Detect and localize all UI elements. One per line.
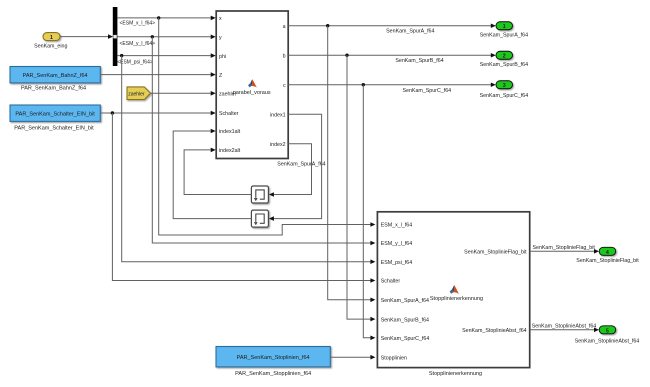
svg-text:Stopplinien: Stopplinien bbox=[381, 355, 407, 361]
svg-text:Schalter: Schalter bbox=[381, 279, 401, 285]
svg-text:PAR_SenKam_BahnZ_f64: PAR_SenKam_BahnZ_f64 bbox=[21, 85, 86, 91]
constant PAR_SenKam_Stoplinien_f64 bbox=[216, 347, 330, 367]
memory M1 bbox=[251, 186, 268, 203]
node b branch bbox=[345, 54, 348, 57]
svg-text:1: 1 bbox=[503, 24, 506, 30]
svg-text:SenKam_SpurA_f64: SenKam_SpurA_f64 bbox=[386, 29, 434, 35]
constant PAR_SenKam_Schalter_EIN_bit bbox=[10, 105, 100, 121]
svg-text:SenKam_SpurC_f64: SenKam_SpurC_f64 bbox=[403, 88, 452, 94]
wire SenKam_StoplinieFlag_bit to outport 4 bbox=[530, 250, 595, 252]
wire b to outport 2 bbox=[288, 54, 491, 56]
svg-text:<ESM_x_l_f64>: <ESM_x_l_f64> bbox=[120, 20, 156, 26]
inport 1 SenKam_eing bbox=[43, 33, 60, 41]
svg-text:Stopplinienerkennung: Stopplinienerkennung bbox=[430, 296, 483, 302]
svg-text:b: b bbox=[283, 54, 286, 60]
svg-text:a: a bbox=[283, 24, 286, 30]
svg-text:ESM_psi_f64: ESM_psi_f64 bbox=[381, 260, 413, 266]
svg-text:SenKam_eing: SenKam_eing bbox=[34, 43, 67, 49]
svg-text:PAR_SenKam_Schalter_EIN_bit: PAR_SenKam_Schalter_EIN_bit bbox=[15, 112, 95, 118]
svg-text:index1: index1 bbox=[270, 113, 286, 119]
wire Schalter branch down to Stopplinienerkennung bbox=[112, 113, 370, 281]
svg-text:SenKam_StoplinieAbst_f64: SenKam_StoplinieAbst_f64 bbox=[462, 328, 527, 334]
node ESM_psi branch bbox=[120, 54, 123, 57]
wire ESM_x to parabel bbox=[117, 17, 210, 19]
wire Schalter to parabel bbox=[101, 112, 211, 114]
svg-text:SenKam_StoplinieAbst_f64: SenKam_StoplinieAbst_f64 bbox=[532, 324, 597, 330]
svg-text:<ESM_psi_f64>: <ESM_psi_f64> bbox=[117, 59, 153, 65]
svg-text:4: 4 bbox=[606, 250, 609, 256]
svg-text:3: 3 bbox=[503, 83, 506, 89]
svg-text:SenKam_SpurC_f64: SenKam_SpurC_f64 bbox=[480, 93, 529, 99]
svg-text:y: y bbox=[219, 35, 222, 41]
wire a branch down to SpurA input bbox=[328, 26, 371, 300]
wire ESM_y to parabel bbox=[117, 36, 210, 38]
outport 1 SenKam_SpurA_f64 bbox=[496, 22, 513, 30]
wire memory M1 to index2alt bbox=[184, 150, 251, 195]
wire BahnZ to Z bbox=[101, 74, 211, 76]
node ESM_x branch bbox=[157, 16, 160, 19]
svg-text:SenKam_SpurC_f64: SenKam_SpurC_f64 bbox=[381, 336, 430, 342]
wire ESM_x branch to Stopplinienerkennung bbox=[159, 18, 371, 235]
demux input square bbox=[113, 35, 117, 39]
svg-text:index2alt: index2alt bbox=[219, 148, 241, 154]
svg-text:SenKam_SpurB_f64: SenKam_SpurB_f64 bbox=[395, 58, 443, 64]
svg-text:PAR_SenKam_Stopplinien_f64: PAR_SenKam_Stopplinien_f64 bbox=[235, 371, 311, 377]
svg-text:5: 5 bbox=[606, 328, 609, 334]
outport 5 SenKam_StoplinieAbst_f64 bbox=[599, 326, 616, 334]
wire inport to demux bbox=[60, 36, 108, 38]
svg-text:parabel_voraus: parabel_voraus bbox=[233, 90, 271, 96]
MATLAB function block Stopplinienerkennung bbox=[377, 212, 529, 368]
svg-text:SenKam_StoplinieFlag_bit: SenKam_StoplinieFlag_bit bbox=[576, 258, 639, 264]
svg-text:PAR_SenKam_BahnZ_f64: PAR_SenKam_BahnZ_f64 bbox=[23, 73, 88, 79]
svg-text:2: 2 bbox=[503, 54, 506, 60]
wire c to outport 3 bbox=[288, 84, 491, 86]
svg-text:ESM_x_l_f64: ESM_x_l_f64 bbox=[381, 223, 413, 229]
svg-text:SenKam_SpurA_f64: SenKam_SpurA_f64 bbox=[381, 298, 429, 304]
svg-text:SenKam_StoplinieAbst_f64: SenKam_StoplinieAbst_f64 bbox=[575, 338, 640, 344]
wire Stoplinien to Stopplinienerkennung bbox=[331, 356, 371, 358]
wire ESM_y branch to Stopplinienerkennung bbox=[152, 37, 370, 243]
svg-text:PAR_SenKam_Stoplinien_f64: PAR_SenKam_Stoplinien_f64 bbox=[237, 355, 310, 361]
wire ESM_psi branch to Stopplinienerkennung bbox=[122, 56, 371, 262]
svg-text:Stopplinienerkennung: Stopplinienerkennung bbox=[429, 371, 482, 377]
wire ESM_psi to parabel bbox=[117, 55, 210, 57]
node a branch bbox=[326, 24, 329, 27]
svg-text:SenKam_StoplinieFlag_bit: SenKam_StoplinieFlag_bit bbox=[464, 250, 527, 256]
wire c branch down to SpurC input bbox=[363, 85, 370, 338]
matlab logo U1 bbox=[248, 79, 257, 87]
demux bar bbox=[113, 7, 118, 66]
svg-text:PAR_SenKam_Schalter_EIN_bit: PAR_SenKam_Schalter_EIN_bit bbox=[14, 126, 94, 132]
wire zaehler to parabel bbox=[151, 92, 211, 94]
wire index1 to memory M2 bbox=[274, 114, 322, 218]
svg-text:c: c bbox=[283, 83, 286, 89]
svg-text:index1alt: index1alt bbox=[219, 129, 241, 135]
node c branch bbox=[362, 83, 365, 86]
svg-text:x: x bbox=[219, 16, 222, 22]
constant PAR_SenKam_BahnZ_f64 bbox=[10, 67, 100, 83]
svg-text:index2: index2 bbox=[270, 142, 286, 148]
svg-text:<ESM_y_l_f64>: <ESM_y_l_f64> bbox=[120, 41, 156, 47]
wire index2 to memory M1 bbox=[274, 144, 312, 195]
node ESM_y branch bbox=[151, 35, 154, 38]
outport 3 SenKam_SpurC_f64 bbox=[496, 81, 513, 89]
outport 4 SenKam_StoplinieFlag_bit bbox=[599, 247, 616, 255]
svg-text:Schalter: Schalter bbox=[219, 111, 239, 117]
from tag zaehler bbox=[127, 87, 151, 100]
wire a to outport 1 bbox=[288, 25, 491, 27]
wire memory M2 to index1alt bbox=[173, 131, 251, 219]
svg-text:ESM_y_l_f64: ESM_y_l_f64 bbox=[381, 241, 413, 247]
svg-text:SenKam_SpurB_f64: SenKam_SpurB_f64 bbox=[480, 62, 528, 68]
svg-text:zaehler: zaehler bbox=[128, 91, 145, 97]
wire b branch down to SpurB input bbox=[347, 55, 371, 319]
svg-text:1: 1 bbox=[50, 35, 53, 41]
memory M2 bbox=[251, 210, 268, 227]
svg-text:phi: phi bbox=[219, 54, 226, 60]
wire SenKam_StoplinieAbst_f64 to outport 5 bbox=[530, 329, 595, 331]
svg-text:SenKam_SpurB_f64: SenKam_SpurB_f64 bbox=[381, 317, 429, 323]
svg-text:SenKam_StoplinieFlag_bit: SenKam_StoplinieFlag_bit bbox=[532, 245, 595, 251]
outport 2 SenKam_SpurB_f64 bbox=[496, 51, 513, 59]
matlab logo U2 bbox=[450, 285, 459, 294]
svg-text:SenKam_SpurA_f64: SenKam_SpurA_f64 bbox=[277, 162, 325, 168]
node Schalter branch bbox=[111, 111, 114, 114]
MATLAB function block parabel_voraus bbox=[216, 11, 288, 159]
svg-text:SenKam_SpurA_f64: SenKam_SpurA_f64 bbox=[480, 33, 528, 39]
